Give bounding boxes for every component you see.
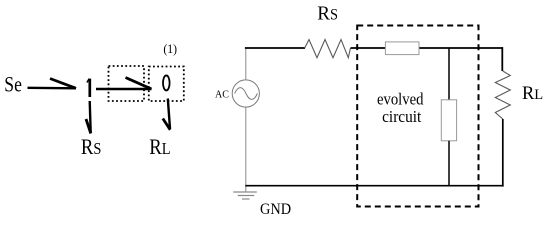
cell box empty — [109, 66, 145, 101]
wire RL top — [501, 47, 503, 71]
svg-text:circuit: circuit — [382, 108, 422, 126]
wire bottom — [245, 185, 503, 187]
AC source — [232, 80, 259, 107]
wire AC bottom — [245, 107, 247, 192]
svg-text:RL: RL — [522, 83, 543, 104]
svg-text:Se: Se — [4, 73, 22, 97]
svg-text:evolved: evolved — [377, 91, 424, 109]
svg-text:AC: AC — [215, 90, 229, 101]
node 0 — [163, 75, 170, 90]
wire arrow 1 to Rs — [86, 101, 91, 134]
wire top left segment — [245, 47, 305, 49]
svg-text:RL: RL — [149, 136, 170, 160]
resistor evolved vertical — [441, 100, 456, 141]
wire top mid segment — [351, 47, 386, 49]
wire junction lower — [448, 141, 450, 186]
wire top right segment — [419, 47, 503, 49]
node 1 — [87, 79, 90, 97]
svg-text:GND: GND — [260, 200, 291, 218]
resistor evolved horizontal — [385, 42, 419, 55]
ground — [233, 192, 257, 199]
wire arrow Se to 1 — [28, 79, 77, 89]
resistor Rs — [305, 40, 351, 58]
svg-text:RS: RS — [317, 2, 338, 25]
wire arrow 0 to RL — [163, 99, 170, 130]
resistor RL — [495, 71, 510, 119]
svg-text:(1): (1) — [163, 42, 177, 56]
svg-text:RS: RS — [81, 136, 102, 160]
evolved circuit dashed box — [357, 26, 478, 207]
wire arrow 1 to 0 — [96, 78, 152, 90]
wire junction upper — [448, 48, 450, 100]
cell box with 0 — [149, 67, 184, 102]
wire AC top — [245, 48, 247, 80]
wire RL bottom — [502, 119, 504, 187]
